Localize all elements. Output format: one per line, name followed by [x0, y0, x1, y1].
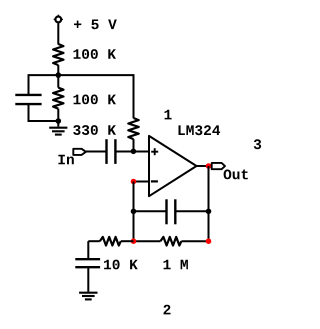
+5V supply terminal: [54, 15, 63, 25]
input port In: [73, 149, 86, 155]
label R3 value 330 K: [73, 125, 116, 135]
ground symbol G1: [49, 121, 67, 135]
wire: node A to R3 top: [58, 75, 133, 118]
label Out: [224, 170, 248, 180]
ground node junction dot: [56, 118, 62, 124]
output port Out: [212, 163, 225, 169]
op-amp U1 LM324: [149, 136, 197, 196]
capacitor C4: [167, 199, 176, 224]
label R4 value 10 K: [104, 260, 138, 270]
label +5V net: [74, 20, 117, 30]
wire: feedback top rail left: [134, 210, 167, 212]
wire: +5V terminal to R1: [57, 23, 59, 45]
resistor R4 10K: [88, 237, 133, 246]
wire: C3 to ground: [87, 267, 89, 291]
label In: [58, 155, 73, 165]
node A junction dot: [56, 72, 62, 78]
resistor R1: [53, 44, 63, 65]
wire: op-amp output: [197, 165, 212, 167]
wire: C1 bottom to ground node: [29, 104, 59, 121]
wire: feedback top rail right: [175, 210, 208, 212]
node junction dot top rail left: [131, 209, 137, 215]
node junction dot top rail right: [206, 209, 212, 215]
node C red dot (inverting input): [131, 179, 137, 185]
capacitor C3: [75, 259, 100, 267]
wire: inverting node down to feedback rail: [133, 182, 135, 242]
wire: R1 to node A: [57, 65, 59, 75]
label R1 value 100 K: [74, 49, 117, 59]
node D red dot (feedback junction): [131, 238, 137, 244]
wire: op-amp inverting input: [134, 181, 150, 183]
resistor R2: [53, 75, 63, 121]
label R5 value 1 M: [164, 260, 188, 270]
label pin 3: [254, 139, 261, 149]
wire: R4 to C3: [87, 241, 89, 259]
capacitor C2: [107, 139, 116, 164]
label R2 value 100 K: [74, 95, 117, 105]
resistor R3: [128, 118, 138, 152]
node E red dot (output rail junction): [206, 238, 212, 244]
wire: In port to C2: [86, 151, 107, 153]
wire: C2 to op-amp noninverting input: [115, 151, 149, 153]
wire: output down to feedback rail: [208, 166, 210, 241]
wire: node A to C1 top: [29, 75, 59, 95]
node B junction dot (noninverting input): [131, 149, 137, 155]
capacitor C1: [15, 95, 41, 104]
ground symbol G2: [79, 293, 97, 300]
resistor R5 1M: [134, 237, 209, 246]
node Out red dot: [206, 163, 212, 169]
label pin 1: [165, 110, 172, 120]
label pin 2: [164, 305, 171, 315]
label U1 LM324: [179, 125, 221, 135]
